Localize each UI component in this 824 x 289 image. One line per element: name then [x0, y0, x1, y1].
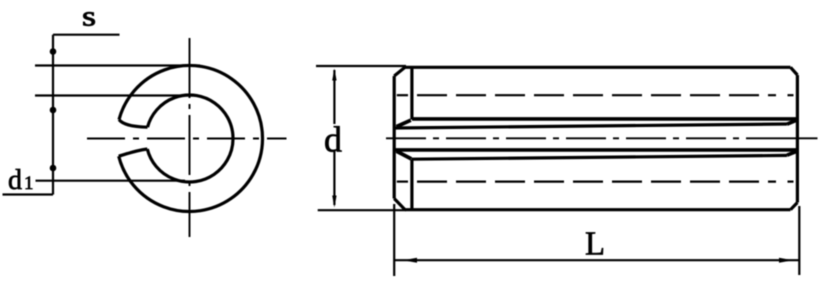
svg-text:d1: d1 — [8, 165, 34, 196]
svg-text:s: s — [82, 1, 96, 33]
svg-text:L: L — [585, 225, 605, 262]
svg-text:d: d — [324, 120, 342, 160]
